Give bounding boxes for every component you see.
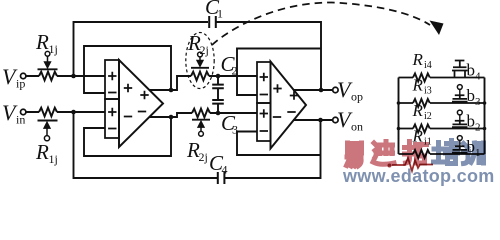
resistor R2j top trimmer bar: [191, 67, 209, 69]
wire Vin input: [26, 111, 105, 113]
capacitor C2: [212, 85, 224, 89]
wire top C1 to output node: [217, 22, 322, 90]
resistor Ri4: [413, 74, 430, 82]
watermark logo pulse line: [392, 158, 433, 171]
svg-text:in: in: [16, 113, 25, 127]
resistor R1j bottom trimmer bar: [38, 120, 58, 122]
junction node rail right b3: [483, 101, 487, 105]
resistor R2j top arrow: [199, 57, 201, 61]
resistor R1j top trimmer bar: [38, 68, 58, 70]
resistor R2j bottom trimmer bar: [192, 119, 210, 121]
dashed ellipse highlight around R2j: [186, 33, 214, 89]
junction node rail left b3: [397, 101, 401, 105]
junction node rail left b2: [397, 127, 401, 131]
terminal Von: [333, 117, 338, 122]
glyph pei (blue): [434, 141, 458, 164]
svg-text:ip: ip: [16, 77, 25, 91]
wire op2 feedback loop bottom: [237, 132, 321, 156]
wire op1 lower output to R2j bottom: [150, 113, 258, 117]
glyph di (red): [373, 142, 394, 165]
svg-text:1j: 1j: [49, 42, 58, 56]
op-amp A1 input boxes: [105, 60, 119, 138]
svg-text:R: R: [412, 50, 424, 69]
svg-text:R: R: [35, 140, 49, 164]
svg-text:2j: 2j: [199, 150, 208, 164]
dashed arrow arc to detail: [212, 2, 430, 45]
svg-text:1j: 1j: [49, 152, 58, 166]
rail left: [398, 78, 400, 155]
wire op2 feedback loop top: [237, 49, 321, 96]
svg-text:b: b: [467, 112, 476, 131]
resistor R2j top zigzag: [191, 72, 209, 81]
wire top feedback to C1: [74, 22, 209, 76]
glyph xun (blue): [464, 143, 484, 164]
node mid top: [216, 74, 221, 79]
junction node Vin: [71, 110, 76, 115]
wire branch b4: [399, 77, 485, 79]
transistor switch b1: [452, 146, 468, 152]
resistor R1j bottom zigzag: [39, 108, 57, 117]
svg-text:R: R: [35, 30, 49, 54]
op-amp A2 inner signs: [273, 84, 298, 117]
svg-text:b: b: [467, 61, 476, 80]
wire Vip input: [26, 75, 105, 77]
branch Ri4 / b4: [399, 50, 485, 83]
svg-text:2j: 2j: [200, 43, 209, 57]
wire op2 lower output to Von terminal: [293, 119, 333, 121]
node mid bottom: [216, 111, 221, 116]
svg-text:i3: i3: [424, 86, 432, 97]
op-amp A1 inner signs: [124, 84, 149, 117]
branch Ri2 / b2: [397, 101, 487, 134]
op-amp A2 input boxes: [257, 62, 271, 141]
svg-text:i4: i4: [424, 60, 432, 71]
junction node rail right b2: [483, 127, 487, 131]
resistor R1j top arrow: [47, 57, 49, 63]
op-amp A1 triangle: [119, 60, 163, 147]
svg-text:R: R: [412, 101, 424, 120]
wire op1 feedback loop top: [84, 46, 171, 93]
terminal Vin: [21, 109, 26, 114]
svg-text:www.edatop.com: www.edatop.com: [342, 166, 495, 186]
wire branch b1: [399, 153, 485, 155]
resistor R2j bottom arrow: [200, 127, 202, 131]
svg-text:3: 3: [475, 96, 481, 108]
capacitor C4: [218, 172, 225, 184]
wire C2 C3 chain vertical: [217, 76, 219, 113]
terminal Vip: [21, 73, 26, 78]
op-amp A1 box signs: [108, 72, 116, 129]
wire op1 upper output to R2j top: [149, 76, 257, 90]
wire op2 upper output to Vop terminal: [293, 89, 333, 91]
resistor R2j bottom zigzag: [192, 109, 210, 118]
node op1 out-: [169, 115, 174, 120]
svg-text:i2: i2: [424, 111, 432, 122]
node op1 out+: [169, 88, 174, 93]
op-amp A2 box signs: [260, 73, 268, 131]
branch Ri1 / b1: [399, 127, 485, 160]
glyph yi (red): [347, 143, 362, 166]
transistor switch b3: [452, 95, 468, 101]
resistor Ri3: [413, 99, 430, 107]
junction node Vip: [71, 74, 76, 79]
branch Ri3 / b3: [397, 76, 487, 109]
transistor switch b4: [452, 61, 468, 78]
svg-text:on: on: [351, 120, 363, 134]
wire bottom C4 to output node: [225, 120, 321, 178]
rail right: [484, 78, 486, 155]
wire op1 feedback loop bottom: [84, 117, 171, 156]
capacitor C1: [209, 16, 216, 28]
resistor R1j bottom arrow: [46, 128, 48, 136]
svg-text:2: 2: [475, 122, 481, 134]
svg-text:4: 4: [222, 163, 228, 177]
svg-text:1: 1: [217, 7, 223, 21]
node op2 out-: [318, 118, 323, 123]
terminal Vop: [333, 87, 338, 92]
gate terminal circle b3: [459, 89, 461, 95]
resistor Ri1: [413, 150, 430, 158]
transistor switch b2: [452, 121, 468, 127]
resistor Ri2: [413, 125, 430, 133]
svg-text:op: op: [351, 90, 363, 104]
glyph tuo (red): [405, 142, 427, 164]
gate terminal circle b1: [459, 140, 461, 146]
svg-text:3: 3: [232, 123, 238, 137]
svg-text:2: 2: [232, 64, 238, 78]
wire bottom feedback to C4: [74, 112, 218, 178]
wire branch b2: [399, 128, 485, 130]
wire branch b3: [399, 102, 485, 104]
watermark chinese characters: [347, 141, 484, 167]
capacitor C3: [212, 100, 224, 104]
resistor R1j top zigzag: [39, 72, 57, 81]
gate terminal circle b2: [459, 115, 461, 121]
svg-text:R: R: [412, 76, 424, 95]
node op2 out+: [319, 88, 324, 93]
svg-text:4: 4: [475, 71, 481, 83]
op-amp A2 triangle: [271, 62, 307, 149]
svg-text:b: b: [467, 86, 476, 105]
